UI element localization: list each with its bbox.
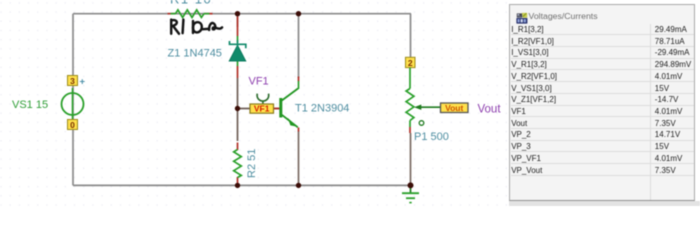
- wire collector vertical segment: [298, 14, 300, 78]
- wire emitter vertical segment: [298, 131, 300, 185]
- results panel: [509, 4, 695, 201]
- potentiometer wiper terminal circle: [419, 121, 424, 126]
- wire right rail node 2: [410, 14, 412, 58]
- voltage pin probe VF1 symbol: [257, 94, 269, 105]
- potentiometer wiper arrow: [414, 105, 441, 110]
- svg-text:R2 51: R2 51: [246, 149, 258, 178]
- handwritten annotation "R1 10 ohm": [171, 20, 222, 34]
- wire top horizontal net 3: [73, 13, 411, 15]
- junction bottom at emitter: [296, 183, 301, 188]
- probe Vout yellow box: [441, 103, 469, 113]
- junction bottom at R2: [235, 183, 240, 188]
- wire zener top segment: [237, 14, 239, 27]
- svg-text:+: +: [80, 77, 86, 88]
- ground: [402, 185, 419, 202]
- svg-text:Vout: Vout: [445, 103, 463, 113]
- svg-text:Vout: Vout: [478, 104, 502, 116]
- wire potentiometer bottom to ground: [410, 133, 412, 185]
- svg-text:P1 500: P1 500: [414, 131, 449, 143]
- svg-text:3: 3: [70, 76, 75, 86]
- zener diode Z1: [229, 17, 246, 79]
- wire base horizontal segment: [238, 108, 280, 110]
- node 2 label box: [406, 57, 416, 68]
- wire left rail: [72, 14, 74, 186]
- svg-text:Z1 1N4745: Z1 1N4745: [168, 48, 222, 60]
- wire node VF1 vertical segment: [237, 78, 239, 141]
- node 0 label box: [68, 120, 78, 131]
- svg-text:VF1: VF1: [254, 104, 270, 114]
- junction top at collector: [296, 11, 301, 16]
- panel icon: [516, 12, 528, 24]
- svg-text:R1 10: R1 10: [170, 0, 212, 7]
- resistor R1: [168, 10, 213, 18]
- svg-text:2: 2: [408, 58, 413, 68]
- transistor T1: [279, 77, 299, 132]
- svg-text:T1 2N3904: T1 2N3904: [295, 103, 349, 115]
- resistor R2: [234, 143, 242, 186]
- svg-text:0: 0: [70, 120, 75, 130]
- junction node VF1 at base: [235, 106, 240, 111]
- probe VF1 yellow box: [250, 104, 274, 114]
- wire bottom ground rail: [73, 184, 411, 186]
- svg-text:VF1: VF1: [249, 76, 269, 88]
- voltage source VS1: [62, 88, 84, 120]
- pin base red tip: [272, 108, 279, 110]
- svg-text:VS1 15: VS1 15: [12, 99, 48, 111]
- junction at ground: [408, 182, 414, 188]
- junction top at zener: [235, 11, 240, 16]
- potentiometer P1: [406, 68, 414, 133]
- node 3 label box: [68, 76, 78, 87]
